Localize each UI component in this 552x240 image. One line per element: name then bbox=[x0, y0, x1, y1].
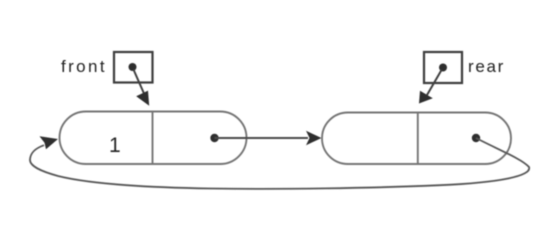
rear arrow wire bbox=[427, 70, 442, 95]
rear pointer box bbox=[424, 52, 462, 83]
loop arrowhead into node 1 bbox=[40, 136, 59, 149]
front pointer dot bbox=[129, 63, 137, 71]
svg-text:1: 1 bbox=[109, 134, 121, 157]
node 2 body bbox=[322, 113, 511, 165]
circular wire node2 back to node1 bbox=[30, 138, 529, 189]
arrowhead into node 2 bbox=[306, 131, 322, 145]
node 1 body bbox=[60, 112, 247, 165]
node 1 pointer dot bbox=[210, 134, 218, 142]
rear pointer dot bbox=[439, 64, 447, 72]
node 2 divider bbox=[417, 113, 419, 165]
front pointer box bbox=[114, 52, 153, 83]
front arrow wire bbox=[134, 70, 146, 98]
svg-text:rear: rear bbox=[468, 57, 505, 76]
rear arrowhead bbox=[419, 91, 433, 104]
wire node1 to node2 bbox=[215, 137, 309, 139]
node 2 pointer dot bbox=[472, 134, 480, 142]
svg-text:front: front bbox=[61, 57, 107, 76]
node 1 divider bbox=[152, 112, 154, 165]
front arrowhead bbox=[136, 91, 149, 106]
